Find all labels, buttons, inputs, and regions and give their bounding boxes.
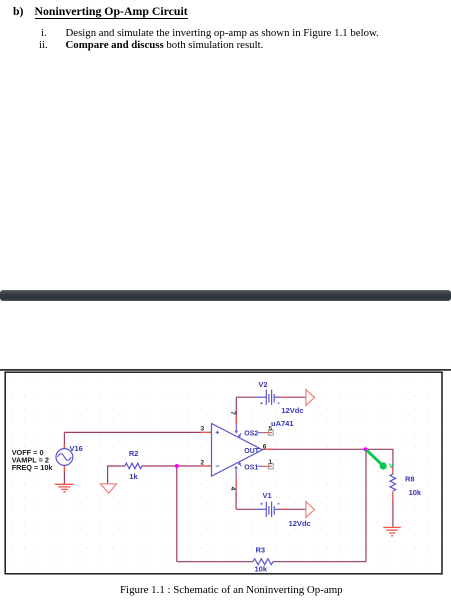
svg-text:1: 1	[269, 459, 273, 466]
caption	[120, 584, 343, 596]
wire V2 right to ground arrow	[281, 396, 306, 398]
wire R8 bottom to ground	[392, 492, 394, 527]
svg-text:3: 3	[201, 426, 205, 433]
svg-text:V16: V16	[70, 444, 83, 453]
op-amp V- pin stub with arrow	[235, 476, 237, 490]
wire V1 right to ground arrow	[281, 508, 306, 510]
wire feedback left vertical	[176, 466, 178, 562]
junction node at output	[364, 447, 368, 451]
OS1 no-connect square pin 1	[268, 464, 273, 469]
voltage source V16 circle	[56, 449, 73, 466]
op-amp V+ pin stub with arrow	[235, 415, 237, 424]
OS1 pin stub	[257, 465, 263, 467]
svg-text:FREQ = 10k: FREQ = 10k	[12, 463, 54, 472]
list item i	[41, 27, 47, 39]
battery V1	[255, 502, 281, 517]
pin stub red V16 bottom	[63, 466, 65, 472]
schematic frame box	[5, 372, 442, 574]
wire output row	[262, 449, 393, 474]
svg-text:R8: R8	[405, 475, 415, 484]
V16 attributes text	[12, 448, 54, 472]
wire pin 4 vertical	[235, 476, 237, 509]
svg-text:V: V	[389, 463, 394, 470]
svg-text:10k: 10k	[409, 488, 422, 497]
svg-text:7: 7	[229, 411, 236, 415]
svg-text:12Vdc: 12Vdc	[289, 519, 311, 528]
svg-text:R3: R3	[256, 546, 266, 555]
wire top horizontal to pin 3	[64, 431, 211, 433]
OS2 internal diagonal pin	[239, 433, 241, 436]
separator bar	[0, 290, 451, 301]
ground 0 under V16	[55, 484, 74, 492]
pin stub red R8 bottom	[392, 492, 394, 502]
wire R2 right to pin 2	[142, 465, 212, 467]
wire V16 bottom vertical	[63, 466, 65, 485]
svg-text:6: 6	[263, 443, 267, 450]
pin stub red pin3	[201, 431, 212, 433]
outer top rule	[0, 369, 451, 371]
junction node at feedback/R2	[175, 464, 179, 468]
voltage probe marker	[368, 451, 395, 470]
wire V- row to V1	[236, 508, 254, 510]
svg-text:V2: V2	[258, 380, 267, 389]
resistor R3	[253, 559, 273, 565]
svg-text:5: 5	[269, 425, 273, 432]
OS2 no-connect square pin 5	[268, 430, 273, 435]
op-amp U1 triangle	[212, 424, 263, 477]
resistor R2	[125, 463, 142, 469]
wire feedback bottom left segment	[177, 561, 253, 563]
svg-text:12Vdc: 12Vdc	[281, 406, 303, 415]
pin stub red R8 top	[392, 470, 394, 475]
battery V2	[255, 390, 281, 405]
heading b) Noninverting Op-Amp Circuit	[13, 4, 24, 19]
svg-text:10k: 10k	[255, 565, 268, 574]
svg-text:4: 4	[229, 487, 236, 491]
svg-text:uA741: uA741	[271, 419, 294, 428]
svg-text:2: 2	[201, 459, 205, 466]
svg-text:1k: 1k	[129, 472, 138, 481]
ground triangle right of V2	[306, 390, 315, 406]
OS2 pin stub	[257, 432, 263, 434]
svg-text:OS1: OS1	[244, 465, 258, 472]
svg-text:OUT: OUT	[244, 448, 259, 455]
op-amp minus input mark	[216, 465, 220, 467]
svg-text:V1: V1	[263, 491, 272, 500]
resistor R8	[390, 474, 396, 491]
wire V+ row to V2	[236, 396, 254, 398]
ground triangle right of V1	[306, 502, 315, 518]
wire feedback right vertical	[365, 449, 367, 561]
wire R2 left + down to ground	[108, 466, 125, 484]
wire pin 7 vertical	[235, 397, 237, 424]
pin stub red out	[262, 448, 274, 450]
wire V16 top vertical	[63, 432, 65, 448]
ground 0 under R8	[383, 527, 401, 535]
list item ii	[39, 39, 48, 51]
wire feedback bottom right segment	[273, 561, 366, 563]
pin stub red V16 top	[63, 444, 65, 449]
op-amp plus input mark	[216, 431, 220, 435]
svg-text:R2: R2	[129, 449, 139, 458]
svg-text:OS2: OS2	[244, 430, 258, 437]
ground triangle under R2	[101, 484, 117, 493]
pin stub red pin2	[201, 465, 212, 467]
schematic SVG	[0, 365, 451, 580]
grid dots	[7, 374, 441, 573]
OS1 internal diagonal pin	[239, 464, 241, 467]
